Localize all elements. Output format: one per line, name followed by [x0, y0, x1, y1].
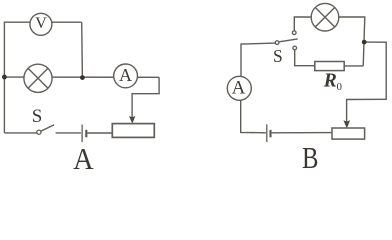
- svg-text:V: V: [35, 15, 47, 32]
- svg-text:R: R: [323, 71, 337, 92]
- svg-text:A: A: [73, 141, 94, 169]
- svg-text:A: A: [119, 65, 132, 85]
- svg-text:B: B: [302, 140, 319, 169]
- svg-text:S: S: [32, 106, 43, 127]
- svg-text:0: 0: [337, 81, 343, 93]
- svg-text:A: A: [232, 77, 246, 98]
- svg-text:S: S: [273, 46, 283, 66]
